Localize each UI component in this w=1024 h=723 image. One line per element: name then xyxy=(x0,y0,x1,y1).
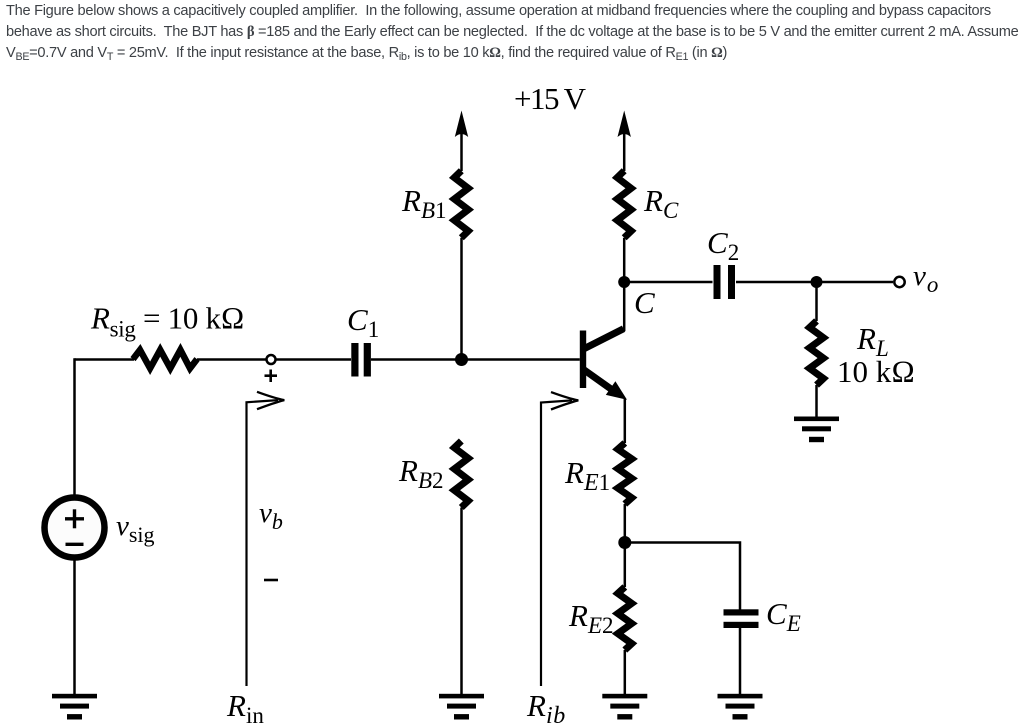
svg-text:RB1: RB1 xyxy=(401,183,447,223)
resistor RB2 xyxy=(454,441,468,508)
svg-text:vo: vo xyxy=(913,260,938,297)
label minus (vb) xyxy=(264,579,278,582)
label RB1 xyxy=(401,183,447,223)
label Rsig = 10 k-ohm xyxy=(90,301,244,342)
wire emitter vertical to RE1 xyxy=(624,399,627,443)
base wire from node to transistor xyxy=(462,358,580,361)
resistor RL xyxy=(810,321,824,385)
node base junction dot xyxy=(455,353,468,366)
label +15 V supply xyxy=(514,81,587,116)
measurement arrow Rin xyxy=(247,392,285,686)
svg-text:vb: vb xyxy=(259,497,283,534)
wire vsig to ground xyxy=(73,560,76,694)
ground (below RL) xyxy=(794,417,839,443)
ground (below RB2) xyxy=(439,694,484,720)
label C (collector node) xyxy=(634,285,655,320)
capacitor C1 xyxy=(351,343,371,377)
svg-text:C: C xyxy=(634,285,655,320)
svg-text:RB2: RB2 xyxy=(398,453,444,493)
svg-text:CE: CE xyxy=(766,596,801,636)
label RC xyxy=(643,183,679,223)
wire output node to RL xyxy=(815,282,818,321)
transistor Q1 xyxy=(580,329,627,400)
wire RE2 to ground xyxy=(624,650,627,694)
wire left vertical to vsig xyxy=(73,358,76,495)
label vsig xyxy=(116,510,155,547)
capacitor CE xyxy=(724,609,759,628)
ground (below vsig) xyxy=(52,694,97,720)
svg-text:RE1: RE1 xyxy=(564,455,610,496)
label vb xyxy=(259,497,283,534)
power +15V arrow (RB1 branch) xyxy=(455,111,468,172)
label Rin xyxy=(226,688,264,723)
terminal input (open circle) xyxy=(267,355,276,364)
label plus (vb) xyxy=(265,370,278,383)
wire RL to ground xyxy=(815,385,818,417)
wire CE to ground xyxy=(739,628,742,694)
resistor RC xyxy=(617,171,631,238)
svg-text:+15 V: +15 V xyxy=(514,81,587,116)
svg-text:C2: C2 xyxy=(707,225,739,265)
label RB2 xyxy=(398,453,444,493)
terminal vo (open circle) xyxy=(894,277,904,287)
wire Rsig to open terminal xyxy=(197,358,267,361)
label RE1 xyxy=(564,455,610,496)
measurement arrow Rib xyxy=(541,392,578,686)
ground (below RE2) xyxy=(602,694,647,720)
svg-text:C1: C1 xyxy=(347,302,379,342)
node emitter junction dot xyxy=(618,536,631,549)
label vo xyxy=(913,260,938,297)
resistor RB1 xyxy=(454,171,468,238)
svg-text:10 kΩ: 10 kΩ xyxy=(837,354,915,389)
node C (collector node dot) xyxy=(618,276,630,288)
wire C2 to output node xyxy=(736,281,893,284)
svg-text:Rib: Rib xyxy=(526,688,566,723)
wire collector vertical xyxy=(623,282,626,331)
svg-text:RE2: RE2 xyxy=(568,598,614,638)
wire RE1 to emitter node xyxy=(624,504,627,587)
label RL value 10 k-ohm xyxy=(837,354,915,389)
resistor Rsig xyxy=(133,350,197,368)
ground (below CE) xyxy=(718,694,763,720)
label RE2 xyxy=(568,598,614,638)
wire RB2 to ground xyxy=(460,508,463,695)
wire C1 to base node xyxy=(371,358,462,361)
wire RB1 bottom to base node xyxy=(460,238,463,360)
power +15V arrow (RC branch) xyxy=(618,111,631,172)
svg-text:Rsig = 10 kΩ: Rsig = 10 kΩ xyxy=(90,301,244,342)
svg-text:Rin: Rin xyxy=(226,688,264,723)
resistor RE1 xyxy=(618,443,632,504)
resistor RE2 xyxy=(618,587,632,650)
wire emitter node to CE branch xyxy=(625,543,740,611)
label RL xyxy=(856,321,889,361)
label C1 xyxy=(347,302,379,342)
label CE xyxy=(766,596,801,636)
svg-text:RC: RC xyxy=(643,183,679,223)
capacitor C2 xyxy=(714,265,736,299)
wire left top xyxy=(75,358,135,361)
wire RC bottom to collector node xyxy=(623,238,626,282)
svg-text:vsig: vsig xyxy=(116,510,155,547)
node output dot xyxy=(811,276,823,288)
wire open terminal to C1 xyxy=(276,358,351,361)
wire collector node to C2 xyxy=(624,281,712,284)
label C2 xyxy=(707,225,739,265)
label Rib xyxy=(526,688,566,723)
voltage source vsig xyxy=(45,498,105,558)
